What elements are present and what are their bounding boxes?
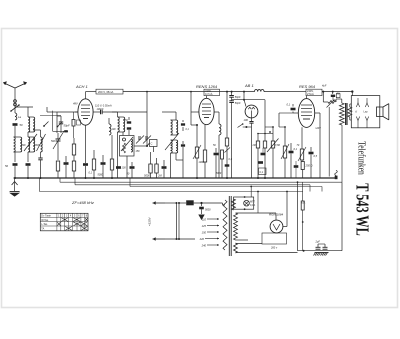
capacitor C30	[225, 148, 231, 167]
capacitor C26 5000	[199, 202, 211, 214]
wire antenna to input coils	[15, 99, 33, 137]
tube AB1 label	[244, 83, 254, 88]
fuse F1	[179, 200, 223, 205]
antenna A1	[3, 82, 27, 99]
RF coil L2	[28, 107, 35, 132]
pickup jack TA1	[335, 170, 338, 179]
wire L3 to bus	[27, 152, 29, 179]
wire detector cluster top	[257, 131, 273, 141]
mains lead L	[153, 201, 177, 204]
wire rectifier output	[283, 192, 287, 227]
screen coil L5	[109, 118, 111, 135]
wire second grid line	[40, 111, 68, 133]
switch table X marks	[57, 218, 88, 231]
svg-text:0,1: 0,1	[287, 103, 291, 107]
capacitor C10	[101, 155, 106, 178]
svg-text:5000: 5000	[205, 209, 211, 212]
svg-text:100: 100	[112, 128, 117, 131]
resistor R9	[203, 125, 206, 178]
padder box C13	[150, 140, 158, 147]
svg-text:50pF: 50pF	[235, 102, 241, 105]
switch table grid	[40, 213, 88, 231]
dots on rail right	[322, 90, 353, 92]
capacitor C34 50	[331, 92, 340, 98]
svg-text:2M: 2M	[252, 144, 256, 147]
distribution line B2	[75, 178, 310, 192]
tube RENS 1264 pins	[190, 91, 217, 125]
distribution line B3	[130, 178, 322, 192]
top HT rail	[123, 91, 255, 93]
label 4uF	[322, 85, 327, 88]
RF coil L3 with trimmer arrow	[24, 132, 37, 152]
capacitor C21 50pF	[229, 97, 241, 178]
svg-text:0,1: 0,1	[89, 172, 93, 175]
svg-text:110: 110	[202, 218, 207, 222]
tube RES 964 envelope	[298, 99, 314, 128]
chassis arrow	[199, 215, 204, 220]
svg-text:1000: 1000	[199, 161, 205, 164]
wire cluster drop	[328, 107, 330, 177]
junction dots on rail	[226, 91, 245, 93]
rectifier label RGN 1064	[269, 213, 284, 217]
mains voltage label	[148, 217, 152, 226]
transformer TR1 taps	[199, 218, 219, 248]
capacitor C33	[294, 161, 299, 178]
label 20V	[315, 127, 321, 130]
value label 1000	[199, 161, 205, 164]
value label 0,1b	[186, 128, 190, 131]
input coil L1	[14, 137, 22, 152]
capacitor C20 50pF	[229, 92, 241, 99]
wire to ACH1 grid	[57, 111, 78, 113]
svg-text:C: C	[151, 142, 153, 146]
svg-text:5000: 5000	[216, 173, 222, 175]
connector contact pins	[355, 98, 369, 128]
value label 50c	[213, 144, 216, 147]
svg-text:0,1: 0,1	[186, 128, 190, 131]
resistor R6	[149, 152, 152, 178]
wave-band switch S1a	[10, 104, 20, 112]
label 48V	[73, 102, 78, 106]
Telefunken logo text	[355, 141, 366, 175]
svg-text:125: 125	[202, 224, 207, 228]
antenna series coil La	[15, 113, 21, 120]
svg-text:RES 964: RES 964	[299, 84, 316, 89]
pilot lamp LP1	[244, 200, 256, 206]
IF caps C17 C18	[181, 120, 185, 152]
wire padder	[146, 91, 154, 152]
value label 300	[22, 144, 27, 147]
distribution line B4	[40, 178, 303, 192]
RF coil L4 with trimmer arrow	[33, 130, 46, 152]
transformer TR1 primary	[223, 200, 228, 250]
mains switch S3	[176, 202, 181, 240]
wire rail to speaker box	[351, 92, 353, 96]
speaker connector X1 box	[351, 96, 380, 128]
wire T2 wiring	[162, 112, 183, 178]
anode label box 240V 27mA	[290, 89, 352, 96]
capacitor C7	[64, 156, 69, 178]
value labels row1	[89, 172, 104, 177]
tube ACH1 envelope	[78, 99, 93, 125]
transformer TR1 core	[229, 196, 231, 256]
wire RENS grid	[191, 124, 198, 126]
cathode resistor R11 with arrow	[298, 127, 306, 161]
capacitor C14	[116, 166, 126, 169]
resistor R2	[56, 161, 59, 178]
dropper resistor aB	[301, 182, 306, 252]
wire T1 to oscillator box	[118, 132, 124, 178]
svg-text:5000: 5000	[98, 174, 104, 177]
resistor R3	[72, 161, 75, 178]
svg-text:100: 100	[122, 167, 127, 170]
svg-text:100pF: 100pF	[97, 108, 105, 111]
value labels row2	[144, 174, 162, 178]
tuning capacitor C5 variable	[53, 131, 64, 149]
resistor R13 on drop	[225, 92, 228, 179]
trimmer capacitor C4	[38, 152, 42, 160]
svg-text:0,5M: 0,5M	[275, 144, 280, 147]
tube ACH1 pins	[75, 111, 96, 113]
oscillator trimmer	[121, 137, 133, 153]
value label 500	[51, 140, 56, 143]
switch table header digits	[58, 216, 88, 218]
value label 0,1c	[229, 158, 233, 161]
svg-text:50: 50	[213, 144, 216, 147]
tuning gang C12 arrows	[136, 136, 151, 144]
svg-text:L-Tas.: L-Tas.	[41, 223, 48, 226]
IF cap C11	[127, 117, 131, 135]
resistor R10 with arrow	[281, 127, 289, 178]
tube RES 964 pins	[293, 112, 320, 114]
capacitor C31	[261, 148, 266, 155]
tube RENS 1264 electrodes	[202, 96, 211, 118]
svg-text:La: La	[18, 115, 21, 119]
tube RES 964 electrodes	[301, 96, 312, 119]
svg-text:150: 150	[136, 150, 141, 153]
wire AB1 input	[232, 92, 265, 107]
value label 50b	[125, 119, 128, 122]
value label 100a	[112, 128, 117, 131]
svg-text:0,1A: 0,1A	[250, 204, 255, 207]
svg-text:150: 150	[202, 231, 207, 235]
volume potentiometer P1	[265, 126, 279, 178]
screen label box 240V 0.7mA	[204, 89, 220, 96]
svg-text:300: 300	[22, 144, 27, 147]
value label 5000b	[216, 173, 222, 175]
label 110V 0.55mA	[95, 104, 112, 108]
wire L4 to bus	[40, 160, 42, 179]
ground symbol	[10, 178, 20, 196]
svg-text:100: 100	[244, 118, 249, 122]
antenna coupling jack J1	[14, 100, 17, 106]
grid resistor R1	[72, 138, 75, 161]
rectifier box	[262, 233, 287, 250]
svg-text:AB 1: AB 1	[244, 83, 254, 88]
wire drop x265	[264, 100, 266, 179]
output transformer T3 primary	[336, 99, 344, 125]
resistor R14	[256, 141, 259, 179]
svg-text:RENS 1264: RENS 1264	[196, 84, 218, 89]
svg-text:50: 50	[127, 173, 130, 176]
svg-text:240: 240	[201, 244, 207, 248]
value label 70	[297, 144, 300, 147]
tube AB1 envelope	[245, 105, 258, 118]
anode coil L6	[217, 112, 221, 178]
svg-text:2µF: 2µF	[315, 241, 321, 244]
coupling capacitor C8 100pF	[96, 108, 147, 114]
svg-text:4µF: 4µF	[322, 85, 327, 88]
svg-text:W-Tas.: W-Tas.	[41, 219, 49, 222]
svg-text:ZF=468 kHz: ZF=468 kHz	[71, 200, 94, 205]
capacitor C19	[214, 148, 219, 178]
svg-text:27mA: 27mA	[307, 92, 314, 96]
svg-text:0,1: 0,1	[294, 147, 298, 151]
svg-text:Telefunken: Telefunken	[355, 141, 366, 175]
AGC resistor R8 with arrow	[193, 125, 201, 179]
capacitor C9	[83, 125, 88, 179]
svg-text:500: 500	[51, 140, 56, 143]
resistor R4	[92, 150, 95, 179]
label ZF 468 kHz	[71, 200, 94, 205]
tube ACH1 electrodes	[81, 94, 90, 119]
svg-text:T 543 WL: T 543 WL	[353, 183, 373, 236]
capacitor C16	[162, 160, 167, 178]
grid leak wire	[279, 113, 293, 128]
tube RES 964 label	[299, 84, 316, 89]
svg-text:48V: 48V	[73, 102, 78, 106]
svg-text:260 v: 260 v	[270, 247, 278, 250]
band switch contacts	[43, 122, 62, 128]
svg-text:≈220V: ≈220V	[148, 217, 152, 226]
rectifier filament	[273, 213, 280, 230]
svg-text:0,5: 0,5	[314, 154, 318, 158]
resistor R7	[155, 158, 158, 178]
resistor R17 small	[72, 112, 81, 138]
tube ACH1 label	[75, 84, 88, 89]
transformer TR1 secondary heater	[234, 243, 298, 253]
mains lead N	[153, 237, 196, 240]
wire grid network	[47, 107, 61, 160]
resistor R12	[221, 150, 224, 178]
grid capacitor C24	[287, 103, 296, 114]
svg-text:ACH 1: ACH 1	[75, 84, 88, 89]
transformer TR1 secondary HV	[234, 192, 277, 241]
box component	[259, 168, 267, 175]
svg-text:50pF: 50pF	[235, 96, 241, 99]
IF transformer T2 secondary	[171, 140, 178, 153]
tone resistor with arrow	[323, 92, 336, 108]
resistor R15	[263, 141, 266, 178]
model number T 543 WL	[353, 183, 373, 236]
detector switch S2	[238, 123, 252, 178]
capacitor C22 100pF	[244, 118, 254, 127]
IF transformer T1 primary	[112, 112, 125, 132]
RF choke L7 on rail	[255, 89, 291, 91]
pilot lamp box	[234, 187, 254, 211]
HT loop rectangle	[297, 181, 342, 250]
svg-text:220: 220	[199, 237, 205, 241]
tube AB1 diode plates	[248, 107, 255, 118]
svg-text:Dr.-Taste: Dr.-Taste	[41, 215, 51, 218]
value label 150	[136, 150, 141, 153]
distribution line B1	[60, 178, 342, 182]
svg-text:70: 70	[297, 144, 300, 147]
svg-text:TA: TA	[41, 228, 44, 231]
svg-text:0,1: 0,1	[260, 171, 264, 174]
svg-text:110 V, 0.55mA: 110 V, 0.55mA	[95, 104, 112, 108]
output transformer T3 secondary	[348, 104, 352, 120]
wire oscillator to bus	[127, 146, 147, 178]
capacitor C15	[127, 162, 135, 178]
rectifier RGN1064 envelope	[270, 220, 283, 233]
value label 2000	[34, 145, 41, 147]
switch table row labels	[41, 215, 51, 231]
loudspeaker LS1	[377, 104, 389, 120]
oscillator block	[120, 136, 135, 157]
value label 0,5M	[275, 144, 280, 147]
main ground bus	[14, 177, 336, 179]
value label 2M2	[252, 144, 256, 147]
capacitor C25	[309, 147, 318, 178]
svg-text:50: 50	[20, 123, 23, 127]
electrolytic capacitor C27 2uF	[314, 241, 322, 256]
capacitor C1 50	[13, 123, 23, 127]
svg-text:50: 50	[5, 164, 8, 168]
resistor R16 250ohm	[301, 162, 312, 179]
capacitor C6 50pF	[59, 116, 70, 128]
svg-text:50pF: 50pF	[64, 124, 70, 128]
tube RENS 1264 label	[196, 84, 218, 89]
resistor R5	[110, 135, 113, 179]
svg-text:200 V, 35mA: 200 V, 35mA	[98, 90, 113, 94]
capacitor C23	[289, 143, 298, 178]
svg-text:5000: 5000	[144, 174, 150, 178]
output transformer T3 core	[346, 103, 347, 125]
svg-text:Lsp: Lsp	[364, 111, 369, 114]
tube RENS 1264 envelope	[199, 98, 214, 124]
transformer TR1 secondary rect heater	[232, 199, 236, 210]
capacitor C32	[258, 161, 263, 164]
svg-text:2000: 2000	[34, 145, 41, 147]
svg-text:t.f: t.f	[355, 111, 357, 114]
svg-text:0,7mA: 0,7mA	[205, 92, 213, 96]
wire antenna branch to bus	[14, 152, 16, 179]
capacitor C3	[26, 163, 31, 166]
IF transformer T2 primary	[165, 120, 179, 150]
svg-text:2M: 2M	[157, 174, 162, 178]
electrolytic capacitor C28 2uF	[318, 244, 329, 256]
capacitor C2	[5, 163, 18, 168]
component box small	[336, 94, 340, 98]
anode supply label box 200V 35mA	[86, 89, 124, 94]
wire RES anode drop	[319, 113, 321, 178]
wire B+ to output	[341, 125, 343, 182]
